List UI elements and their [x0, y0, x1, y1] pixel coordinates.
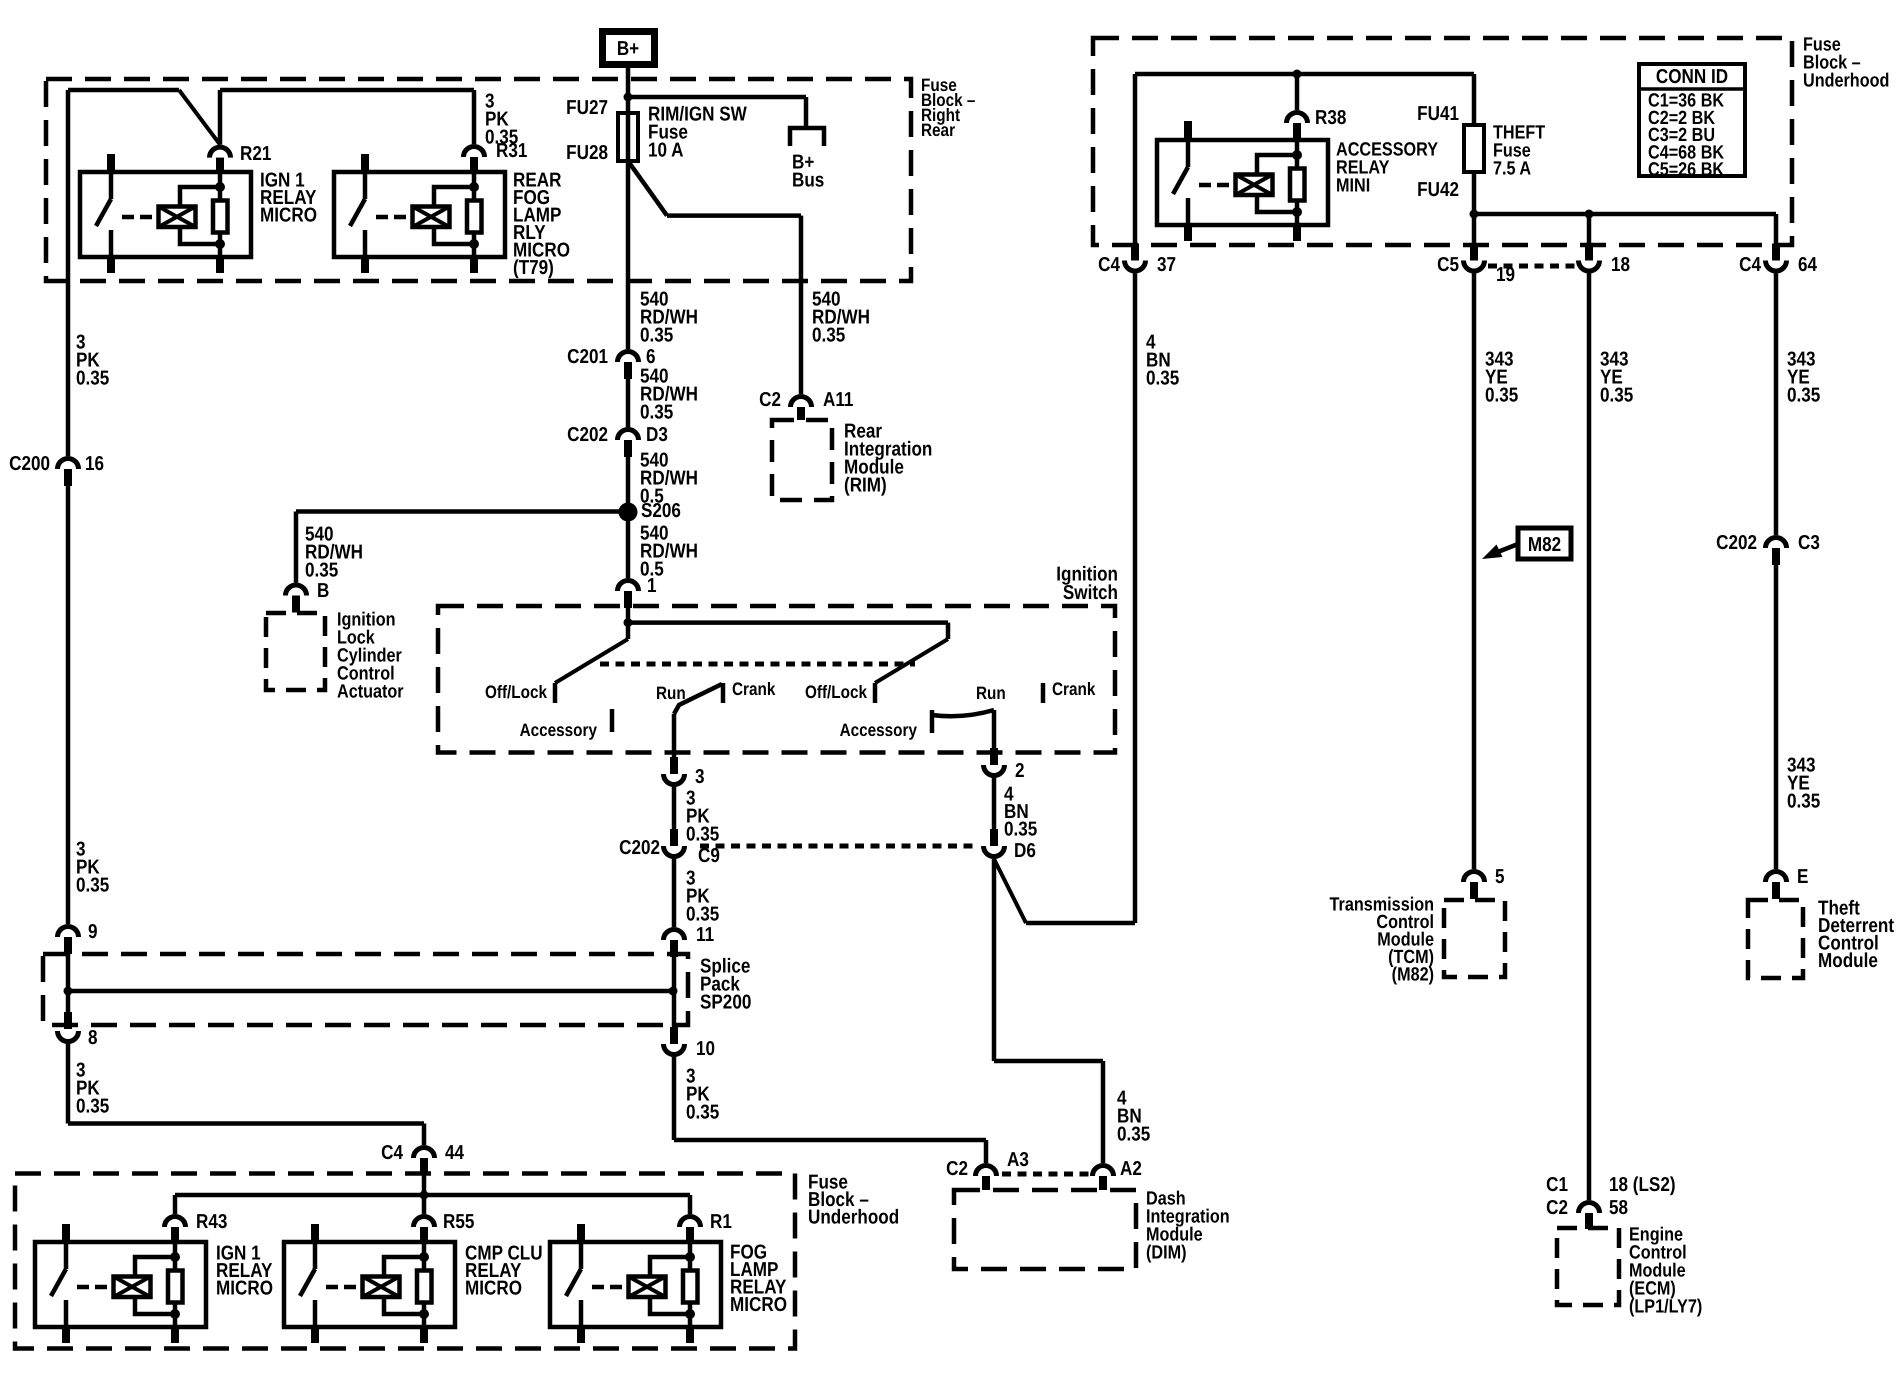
svg-text:Run: Run — [656, 683, 686, 703]
svg-text:Crank: Crank — [1052, 679, 1096, 699]
svg-text:0.35: 0.35 — [1146, 368, 1180, 390]
svg-text:FU27: FU27 — [566, 97, 608, 119]
svg-text:C202: C202 — [619, 837, 660, 859]
svg-text:Actuator: Actuator — [337, 681, 404, 702]
svg-text:C2: C2 — [759, 389, 781, 411]
svg-text:D3: D3 — [646, 424, 668, 446]
svg-text:64: 64 — [1798, 254, 1817, 276]
svg-text:10 A: 10 A — [648, 140, 684, 162]
svg-text:0.35: 0.35 — [640, 402, 674, 424]
svg-text:MICRO: MICRO — [216, 1278, 273, 1300]
svg-text:0.35: 0.35 — [76, 368, 110, 390]
svg-text:C5=26 BK: C5=26 BK — [1648, 159, 1724, 180]
svg-text:Underhood: Underhood — [1803, 70, 1889, 91]
svg-text:MICRO: MICRO — [260, 205, 317, 227]
svg-text:18 (LS2): 18 (LS2) — [1609, 1174, 1676, 1196]
svg-text:Off/Lock: Off/Lock — [805, 682, 868, 702]
svg-text:Rear: Rear — [921, 120, 955, 140]
svg-text:Module: Module — [1818, 950, 1878, 972]
svg-text:C2: C2 — [1546, 1197, 1568, 1219]
svg-text:16: 16 — [85, 453, 104, 475]
svg-text:0.35: 0.35 — [76, 875, 110, 897]
svg-text:C4: C4 — [381, 1142, 403, 1164]
svg-text:8: 8 — [88, 1027, 98, 1049]
svg-text:(DIM): (DIM) — [1146, 1242, 1186, 1263]
svg-text:Accessory: Accessory — [520, 720, 598, 740]
svg-text:C5: C5 — [1437, 254, 1459, 276]
svg-text:C200: C200 — [9, 453, 50, 475]
svg-text:A3: A3 — [1007, 1149, 1029, 1171]
svg-text:C4: C4 — [1098, 254, 1120, 276]
svg-text:1: 1 — [647, 575, 657, 597]
svg-text:C3: C3 — [1798, 532, 1820, 554]
svg-text:A11: A11 — [823, 389, 854, 411]
svg-text:Run: Run — [976, 683, 1006, 703]
svg-text:0.35: 0.35 — [1787, 385, 1821, 407]
svg-text:9: 9 — [88, 921, 98, 943]
svg-text:A2: A2 — [1120, 1158, 1142, 1180]
svg-text:C1: C1 — [1546, 1174, 1568, 1196]
svg-text:MICRO: MICRO — [730, 1294, 787, 1316]
svg-text:0.35: 0.35 — [1787, 791, 1821, 813]
svg-text:B+: B+ — [617, 38, 639, 60]
svg-text:2: 2 — [1015, 760, 1025, 782]
svg-text:SP200: SP200 — [700, 992, 751, 1014]
svg-text:0.35: 0.35 — [1117, 1124, 1151, 1146]
svg-text:44: 44 — [445, 1142, 464, 1164]
svg-text:R55: R55 — [443, 1211, 475, 1233]
svg-text:CONN ID: CONN ID — [1656, 66, 1728, 88]
svg-text:B: B — [317, 580, 329, 602]
svg-text:0.35: 0.35 — [76, 1096, 110, 1118]
svg-text:0.35: 0.35 — [1600, 385, 1634, 407]
svg-text:0.35: 0.35 — [686, 824, 720, 846]
svg-text:Crank: Crank — [732, 679, 776, 699]
svg-text:Underhood: Underhood — [808, 1207, 899, 1229]
svg-text:0.35: 0.35 — [1004, 819, 1038, 841]
svg-text:11: 11 — [696, 924, 714, 946]
svg-text:D6: D6 — [1014, 840, 1036, 862]
svg-text:58: 58 — [1609, 1197, 1628, 1219]
svg-text:37: 37 — [1157, 254, 1176, 276]
svg-text:0.35: 0.35 — [686, 904, 720, 926]
svg-text:18: 18 — [1611, 254, 1630, 276]
svg-text:0.35: 0.35 — [686, 1102, 720, 1124]
svg-text:MICRO: MICRO — [465, 1278, 522, 1300]
svg-text:R43: R43 — [196, 1211, 227, 1233]
svg-text:MINI: MINI — [1336, 175, 1370, 196]
svg-text:C202: C202 — [567, 424, 608, 446]
svg-text:C201: C201 — [567, 346, 608, 368]
svg-text:0.35: 0.35 — [485, 127, 519, 149]
svg-text:E: E — [1797, 866, 1808, 888]
svg-text:C2: C2 — [946, 1158, 968, 1180]
svg-text:0.35: 0.35 — [812, 325, 846, 347]
svg-text:FU28: FU28 — [566, 142, 608, 164]
svg-text:0.35: 0.35 — [1485, 385, 1519, 407]
svg-text:(M82): (M82) — [1392, 964, 1434, 985]
svg-text:7.5 A: 7.5 A — [1493, 158, 1531, 179]
svg-text:0.35: 0.35 — [640, 325, 674, 347]
svg-text:5: 5 — [1495, 866, 1505, 888]
svg-text:R21: R21 — [240, 143, 272, 165]
svg-text:Off/Lock: Off/Lock — [485, 682, 548, 702]
svg-text:3: 3 — [695, 766, 705, 788]
svg-text:(LP1/LY7): (LP1/LY7) — [1629, 1296, 1702, 1317]
svg-text:Switch: Switch — [1063, 582, 1118, 604]
svg-text:Bus: Bus — [792, 170, 824, 192]
svg-text:(T79): (T79) — [513, 257, 554, 279]
svg-text:C202: C202 — [1716, 532, 1757, 554]
svg-text:FU42: FU42 — [1417, 179, 1459, 201]
svg-text:S206: S206 — [641, 500, 681, 522]
svg-text:R1: R1 — [710, 1211, 732, 1233]
svg-text:R38: R38 — [1315, 107, 1346, 129]
svg-text:10: 10 — [696, 1038, 715, 1060]
svg-text:Accessory: Accessory — [840, 720, 918, 740]
svg-text:(RIM): (RIM) — [844, 475, 887, 497]
svg-text:C4: C4 — [1739, 254, 1761, 276]
svg-text:0.35: 0.35 — [305, 560, 339, 582]
svg-text:FU41: FU41 — [1417, 103, 1459, 125]
svg-text:M82: M82 — [1528, 534, 1561, 556]
